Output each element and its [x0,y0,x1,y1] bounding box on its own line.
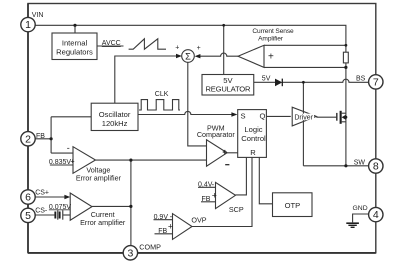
svg-text:0.835V: 0.835V [49,159,72,166]
svg-text:0.9V: 0.9V [154,214,169,221]
svg-text:7: 7 [373,77,379,89]
svg-text:120kHz: 120kHz [102,119,128,128]
svg-text:Error amplifier: Error amplifier [76,174,122,183]
svg-text:CS+: CS+ [35,190,49,197]
svg-text:3: 3 [127,247,133,259]
svg-text:5V: 5V [262,75,271,82]
svg-text:5: 5 [25,210,31,222]
svg-text:2: 2 [25,133,31,145]
svg-text:SCP: SCP [229,205,244,214]
svg-text:+: + [175,44,179,51]
svg-text:AVCC: AVCC [102,40,121,47]
svg-text:OTP: OTP [285,201,301,210]
svg-text:REGULATOR: REGULATOR [206,85,251,94]
svg-text:OVP: OVP [191,215,206,224]
svg-text:Error amplifier: Error amplifier [80,218,126,227]
svg-text:Driver: Driver [294,115,313,122]
svg-text:VIN: VIN [32,12,44,19]
svg-text:Σ: Σ [185,52,191,62]
svg-text:+: + [168,221,173,231]
svg-text:Control: Control [241,134,266,143]
svg-text:FB: FB [36,133,45,140]
svg-text:-: - [170,212,173,221]
svg-text:6: 6 [25,192,31,204]
svg-text:0.075V: 0.075V [49,204,72,211]
svg-text:1: 1 [25,19,31,31]
svg-text:R: R [250,148,256,157]
svg-text:BS: BS [356,75,366,82]
svg-text:-: - [67,143,70,153]
svg-text:FB: FB [158,228,167,235]
svg-text:COMP: COMP [139,242,161,251]
svg-text:+: + [197,45,201,52]
svg-text:FB: FB [202,196,211,203]
svg-text:Internal: Internal [62,38,88,47]
svg-text:Oscillator: Oscillator [99,110,131,119]
svg-text:S: S [241,112,246,121]
svg-text:+: + [70,156,75,165]
svg-text:Current Sense: Current Sense [252,28,294,35]
svg-text:Q: Q [260,112,266,121]
svg-text:4: 4 [373,209,379,221]
svg-text:Comparator: Comparator [197,130,236,139]
svg-text:+: + [268,52,274,63]
svg-text:CLK: CLK [155,91,169,98]
svg-text:SW: SW [354,159,366,166]
svg-text:Regulators: Regulators [56,48,93,57]
svg-text:8: 8 [373,161,379,173]
svg-text:Amplifier: Amplifier [258,36,284,43]
svg-text:-: - [212,180,215,189]
svg-text:+: + [212,190,217,200]
svg-text:GND: GND [353,205,368,212]
svg-text:CS-: CS- [35,208,48,215]
svg-text:5V: 5V [223,76,233,85]
